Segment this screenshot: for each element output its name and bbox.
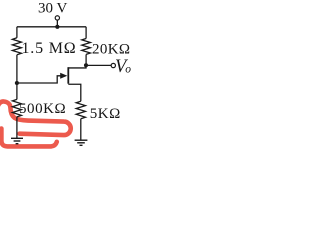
wire: right rail to drain node [85, 54, 87, 65]
wire: right rail bottom [80, 119, 82, 141]
terminal circle Vo [111, 63, 115, 67]
svg-text:30 V: 30 V [38, 0, 67, 16]
svg-text:5KΩ: 5KΩ [90, 106, 121, 122]
wire: left rail mid [16, 55, 18, 100]
wire: right rail top [85, 27, 87, 39]
svg-text:20KΩ: 20KΩ [92, 41, 130, 57]
junction dot top [55, 25, 59, 29]
svg-text:500KΩ: 500KΩ [19, 101, 66, 117]
ground left [11, 138, 23, 143]
red annotation stroke: left bar and bottom line [1, 129, 56, 147]
wire: drain lead [68, 65, 86, 68]
svg-text:o: o [125, 64, 131, 76]
transistor Q1 channel bar [67, 67, 69, 84]
resistor R3 500K zigzag [12, 99, 21, 117]
svg-text:1.5 MΩ: 1.5 MΩ [22, 40, 77, 57]
resistor R2 20K zigzag [82, 39, 91, 55]
junction dot drain node [84, 63, 88, 67]
resistor R4 5K zigzag [76, 101, 85, 119]
wire: left rail bottom [16, 117, 18, 138]
junction dot gate node [15, 81, 19, 85]
wire: source lead [68, 84, 81, 101]
wire: gate run [17, 76, 63, 83]
wire: left rail top [16, 27, 18, 38]
red annotation stroke: arch into loop [0, 101, 71, 146]
wire: output run [86, 64, 111, 66]
wire: 30V terminal drop [56, 20, 58, 27]
resistor R1 1.5M zigzag [12, 38, 21, 55]
transistor Q1 gate arrow [60, 73, 67, 79]
ground right [75, 140, 88, 145]
terminal circle 30V [55, 16, 59, 20]
wire: top rail [17, 26, 86, 28]
